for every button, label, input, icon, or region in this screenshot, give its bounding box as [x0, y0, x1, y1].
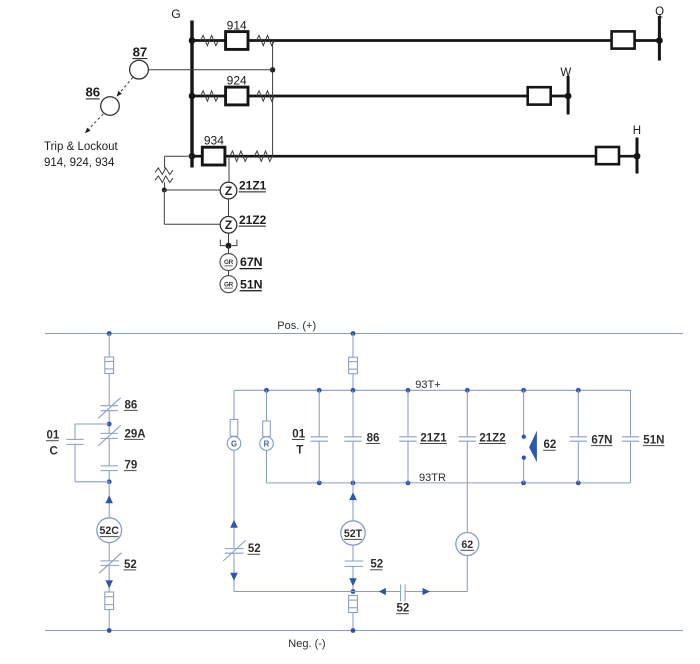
- svg-text:93TR: 93TR: [419, 472, 446, 484]
- svg-text:T: T: [296, 444, 303, 456]
- svg-text:52: 52: [370, 559, 383, 571]
- svg-text:GR: GR: [224, 259, 234, 266]
- svg-text:Z: Z: [225, 218, 232, 232]
- svg-text:86: 86: [125, 399, 138, 411]
- svg-text:29A: 29A: [125, 428, 146, 440]
- svg-text:62: 62: [461, 539, 473, 551]
- svg-text:21Z2: 21Z2: [479, 432, 505, 444]
- svg-text:79: 79: [125, 460, 138, 472]
- svg-text:Q: Q: [655, 6, 664, 18]
- svg-text:52: 52: [248, 543, 261, 555]
- svg-text:Neg. (-): Neg. (-): [288, 638, 325, 650]
- svg-text:87: 87: [133, 44, 148, 59]
- svg-text:52: 52: [397, 603, 410, 615]
- svg-text:93T+: 93T+: [415, 379, 440, 391]
- svg-text:01: 01: [292, 428, 305, 440]
- svg-text:G: G: [231, 439, 237, 448]
- svg-text:914: 914: [227, 18, 247, 32]
- svg-text:R: R: [264, 439, 270, 448]
- svg-text:Trip & Lockout: Trip & Lockout: [44, 141, 119, 153]
- svg-text:934: 934: [204, 133, 224, 147]
- svg-text:86: 86: [85, 85, 100, 100]
- svg-text:52C: 52C: [99, 525, 119, 537]
- svg-text:67N: 67N: [240, 255, 263, 269]
- svg-text:914, 924, 934: 914, 924, 934: [44, 157, 115, 169]
- svg-text:67N: 67N: [591, 434, 612, 446]
- svg-text:21Z1: 21Z1: [239, 179, 267, 193]
- svg-text:H: H: [633, 125, 641, 137]
- svg-text:21Z2: 21Z2: [239, 213, 267, 227]
- svg-text:86: 86: [367, 432, 380, 444]
- svg-text:Z: Z: [225, 184, 232, 198]
- svg-text:G: G: [171, 7, 180, 21]
- svg-text:924: 924: [227, 74, 247, 88]
- svg-text:21Z1: 21Z1: [420, 432, 447, 444]
- svg-text:52: 52: [124, 559, 137, 571]
- svg-text:C: C: [50, 446, 58, 458]
- svg-text:W: W: [560, 67, 571, 79]
- svg-text:51N: 51N: [240, 277, 263, 291]
- svg-text:GR: GR: [224, 281, 234, 288]
- svg-text:52T: 52T: [344, 528, 363, 540]
- svg-text:Pos. (+): Pos. (+): [277, 320, 316, 332]
- svg-text:51N: 51N: [643, 434, 664, 446]
- svg-text:01: 01: [47, 430, 60, 442]
- svg-text:62: 62: [544, 439, 557, 451]
